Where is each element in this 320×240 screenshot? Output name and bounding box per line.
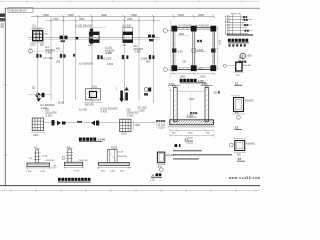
Z2 bbox=[231, 96, 254, 130]
svg-text:500: 500 bbox=[199, 68, 204, 71]
svg-text:JL3 300x500: JL3 300x500 bbox=[79, 63, 94, 66]
svg-text:-5.100: -5.100 bbox=[158, 127, 165, 130]
svg-text:3300: 3300 bbox=[131, 13, 137, 17]
left margin marks bbox=[0, 14, 5, 17]
J1 detail bbox=[150, 152, 175, 181]
svg-text:1650: 1650 bbox=[127, 18, 133, 21]
svg-text:1:50: 1:50 bbox=[198, 79, 204, 83]
cap1 small texts below bbox=[30, 44, 45, 47]
left dim line of section bbox=[169, 89, 172, 126]
top dimension line bbox=[31, 15, 215, 18]
svg-text:300x400: 300x400 bbox=[166, 155, 176, 157]
svg-text:1200: 1200 bbox=[121, 133, 127, 136]
second dim line bbox=[46, 20, 160, 22]
svg-text:www.co188.com: www.co188.com bbox=[228, 176, 260, 180]
marks at x150 bbox=[148, 35, 155, 42]
svg-text:JL4 300x600: JL4 300x600 bbox=[196, 26, 210, 28]
top ruler line bbox=[0, 0, 260, 3]
svg-text:1:20: 1:20 bbox=[150, 178, 155, 181]
svg-text:-1.450: -1.450 bbox=[106, 63, 114, 66]
pile cap PC1 (3x3 waffle) bbox=[31, 29, 49, 43]
main horizontal axis line bbox=[28, 36, 160, 38]
svg-text:C8@200: C8@200 bbox=[45, 160, 54, 162]
svg-text:600 1200: 600 1200 bbox=[101, 58, 112, 61]
svg-text:2C16: 2C16 bbox=[118, 151, 124, 153]
middle wall bbox=[192, 28, 194, 70]
svg-text:300: 300 bbox=[56, 61, 61, 64]
arrows on beam line bbox=[52, 120, 100, 126]
svg-text:2000: 2000 bbox=[178, 13, 184, 17]
sheet border top bbox=[5, 7, 260, 9]
left leader texts bbox=[156, 120, 165, 122]
svg-text:400x400: 400x400 bbox=[246, 144, 256, 146]
svg-text:-1.450: -1.450 bbox=[45, 52, 53, 55]
svg-text:-1.950: -1.950 bbox=[127, 115, 134, 118]
svg-text:2000: 2000 bbox=[180, 75, 186, 78]
corner columns bbox=[171, 26, 177, 32]
small pile square at 76.8 bbox=[76, 37, 78, 40]
pile circle detail bbox=[239, 52, 252, 63]
svg-text:3900: 3900 bbox=[101, 13, 107, 17]
beam line between waffles bbox=[44, 122, 157, 124]
svg-text:PILE TOP: PILE TOP bbox=[231, 14, 241, 16]
text cluster row y56-66 bbox=[29, 48, 151, 66]
ladder title dark block bbox=[228, 39, 249, 47]
svg-text:3.30: 3.30 bbox=[225, 22, 230, 24]
svg-text:1.200: 1.200 bbox=[110, 171, 116, 173]
svg-text:2000: 2000 bbox=[198, 13, 204, 17]
svg-text:3300: 3300 bbox=[68, 13, 74, 17]
svg-text:4.50: 4.50 bbox=[225, 16, 230, 19]
row2 pile symbol at x37.8 bbox=[28, 87, 52, 102]
svg-text:Z3: Z3 bbox=[238, 157, 242, 161]
svg-text:1200: 1200 bbox=[30, 44, 36, 47]
svg-text:±0.00: ±0.00 bbox=[58, 102, 65, 105]
tank left bubbles bbox=[163, 20, 173, 78]
svg-text:JL4 300x600: JL4 300x600 bbox=[178, 26, 192, 28]
svg-text:1650: 1650 bbox=[79, 18, 85, 21]
svg-text:4000: 4000 bbox=[218, 40, 220, 46]
svg-text:-1.450: -1.450 bbox=[100, 111, 108, 114]
waffle square 2 bbox=[120, 119, 141, 135]
row2 section arrows at x122 bbox=[116, 87, 129, 102]
svg-text:-1.450: -1.450 bbox=[134, 51, 142, 54]
svg-text:JL3a: JL3a bbox=[92, 85, 98, 88]
title bottom bbox=[58, 178, 91, 182]
outer walls bbox=[173, 28, 214, 70]
sheet border left bbox=[5, 8, 7, 186]
svg-text:3000: 3000 bbox=[188, 133, 194, 135]
svg-text:400x500: 400x500 bbox=[245, 101, 255, 103]
svg-text:1.700: 1.700 bbox=[40, 171, 46, 173]
text cluster row y47-53 bbox=[45, 45, 144, 55]
svg-text:1-1: 1-1 bbox=[185, 137, 189, 141]
svg-text:1500: 1500 bbox=[179, 33, 185, 36]
svg-text:1.50: 1.50 bbox=[225, 31, 230, 33]
svg-text:450: 450 bbox=[56, 48, 61, 51]
title tank plan bbox=[180, 79, 206, 83]
svg-text:J1: J1 bbox=[151, 173, 155, 177]
left bubble bbox=[29, 49, 33, 53]
waffle text blocks above squares bbox=[45, 108, 139, 117]
svg-text:C8@200: C8@200 bbox=[118, 156, 127, 158]
mid-wall small columns bbox=[172, 48, 176, 52]
svg-text:500: 500 bbox=[214, 92, 219, 95]
walls bbox=[174, 88, 178, 122]
svg-text:2000: 2000 bbox=[200, 75, 206, 78]
svg-text:3300: 3300 bbox=[43, 13, 49, 17]
elevation flags bbox=[172, 86, 176, 89]
svg-text:-0.800: -0.800 bbox=[201, 84, 208, 86]
dims below slab bbox=[169, 129, 215, 137]
sheet border bottom bbox=[0, 185, 260, 187]
Z1 bbox=[223, 58, 252, 86]
svg-text:600 600: 600 600 bbox=[85, 103, 94, 106]
Z3 bbox=[229, 139, 255, 162]
row2 hatched rect detail bbox=[84, 85, 104, 106]
svg-text:2.70: 2.70 bbox=[225, 25, 230, 27]
small column blobs row y53-58 bbox=[36, 54, 154, 60]
svg-text:-0.800: -0.800 bbox=[168, 84, 175, 86]
bottom slab bbox=[170, 120, 214, 125]
svg-text:2-2 1200: 2-2 1200 bbox=[43, 57, 53, 60]
svg-text:GB 50-05-07: GB 50-05-07 bbox=[10, 8, 28, 12]
T detail 2 bbox=[62, 146, 88, 172]
svg-text:400x400: 400x400 bbox=[243, 65, 252, 67]
row2 cluster at x147 bbox=[144, 88, 151, 96]
svg-text:2.10: 2.10 bbox=[225, 28, 230, 30]
svg-text:1200: 1200 bbox=[135, 124, 141, 127]
svg-text:600: 600 bbox=[146, 61, 151, 64]
title: pile plan bbox=[79, 138, 105, 142]
svg-text:-4.500: -4.500 bbox=[196, 49, 204, 52]
svg-text:1.700: 1.700 bbox=[74, 170, 80, 172]
svg-text:1650: 1650 bbox=[53, 18, 59, 21]
right dim line of tank bbox=[216, 26, 219, 70]
svg-text:1:100: 1:100 bbox=[97, 138, 105, 142]
T detail 3 (bigger) bbox=[97, 146, 132, 172]
svg-text:3.90: 3.90 bbox=[225, 19, 230, 21]
svg-text:JL3 300: JL3 300 bbox=[79, 108, 88, 111]
svg-text:2C16: 2C16 bbox=[42, 155, 48, 157]
bottom text rows y103-113 bbox=[40, 102, 147, 114]
svg-text:-4.50: -4.50 bbox=[177, 51, 183, 54]
bottom dim of tank bbox=[171, 72, 216, 75]
T detail 1 bbox=[26, 147, 57, 173]
label text above cap row bbox=[32, 25, 132, 31]
dimension texts above bbox=[43, 13, 204, 17]
svg-text:4200: 4200 bbox=[188, 137, 194, 139]
wall hatch ticks bbox=[173, 28, 214, 70]
pile cap PC3 bbox=[123, 27, 133, 42]
svg-text:C8@200: C8@200 bbox=[79, 160, 88, 162]
svg-text:600: 600 bbox=[40, 44, 45, 47]
svg-text:1200: 1200 bbox=[33, 134, 39, 137]
bottom ruler bbox=[0, 189, 260, 192]
svg-text:-1.450: -1.450 bbox=[105, 52, 113, 55]
svg-text:-1.950: -1.950 bbox=[45, 115, 52, 118]
top-left label box bbox=[8, 8, 33, 13]
svg-text:-1.450: -1.450 bbox=[138, 110, 146, 113]
water line bbox=[177, 90, 205, 92]
cap at x63 (two small blobs) bbox=[60, 36, 68, 43]
svg-text:1.200: 1.200 bbox=[26, 171, 32, 173]
pile cap PC2 bbox=[89, 32, 99, 43]
grid verticals bbox=[38, 17, 154, 104]
svg-text:Z2: Z2 bbox=[235, 126, 239, 130]
svg-text:Z1: Z1 bbox=[235, 81, 239, 85]
vertical mark chain at 91 bbox=[90, 29, 93, 45]
svg-text:1500: 1500 bbox=[189, 99, 195, 101]
waffle square 1 bbox=[31, 118, 46, 137]
